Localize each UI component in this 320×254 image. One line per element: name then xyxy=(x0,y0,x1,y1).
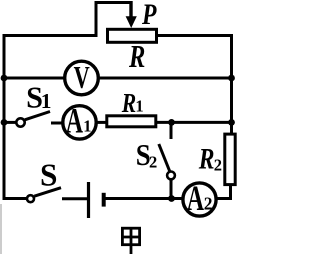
svg-text:2: 2 xyxy=(214,156,222,175)
voltmeter V letter xyxy=(74,60,90,95)
label jia character xyxy=(122,228,139,254)
wire R2 bottom stub xyxy=(229,185,232,200)
wire battery to A2 branch xyxy=(106,197,174,200)
wire switch to battery xyxy=(62,197,88,200)
slider arrow P shaft xyxy=(129,1,132,18)
scan artifact left edge xyxy=(0,204,2,254)
wire voltmeter row left xyxy=(3,77,65,80)
svg-text:R: R xyxy=(198,142,215,175)
svg-text:1: 1 xyxy=(41,89,52,113)
wire right vertical xyxy=(230,34,233,135)
ammeter A2 letter xyxy=(187,178,204,218)
node junction left V row xyxy=(1,75,8,82)
svg-text:P: P xyxy=(141,0,157,31)
label P xyxy=(141,0,157,31)
resistor R2 box xyxy=(225,134,235,185)
wire top left horizontal xyxy=(3,34,98,37)
node junction left A1 row xyxy=(1,119,8,126)
wire A2 to R2 bottom xyxy=(215,197,232,200)
node junction S2 branch top xyxy=(168,119,175,126)
svg-text:2: 2 xyxy=(149,153,157,172)
node junction A2 row xyxy=(168,195,175,202)
node junction right A1 row xyxy=(228,119,235,126)
svg-text:S: S xyxy=(40,158,57,193)
svg-text:2: 2 xyxy=(204,193,213,213)
ammeter A1 letter xyxy=(66,101,83,141)
switch S contact circle xyxy=(27,195,34,202)
wire stub before A1 xyxy=(51,122,63,125)
svg-text:R: R xyxy=(121,89,136,119)
label R1 xyxy=(121,89,136,119)
wire S2 circle to A2 row xyxy=(170,180,173,200)
wire riser to slider xyxy=(95,1,98,37)
wire top right horizontal xyxy=(158,34,233,37)
node junction right V row xyxy=(228,75,235,82)
svg-text:R: R xyxy=(128,40,145,75)
voltmeter U V circle xyxy=(65,61,99,95)
svg-text:V: V xyxy=(74,60,90,95)
wire left vertical xyxy=(3,34,6,200)
ammeter A1 circle xyxy=(63,106,96,139)
switch S2 contact circle xyxy=(167,172,175,180)
ammeter A2 circle xyxy=(183,183,216,216)
label R2 xyxy=(198,142,215,175)
wire to A2 xyxy=(170,197,183,200)
resistor R1 box xyxy=(107,116,156,127)
battery short plate xyxy=(102,193,106,207)
svg-text:1: 1 xyxy=(135,96,143,115)
rheostat R box xyxy=(108,29,157,42)
switch S blade xyxy=(34,188,61,197)
wire R1 to right xyxy=(156,121,233,124)
label R xyxy=(128,40,145,75)
wire bottom row left xyxy=(3,197,27,200)
wire stub A1 to R1 xyxy=(96,121,107,124)
wire slider top horizontal xyxy=(95,1,133,4)
svg-text:A: A xyxy=(66,101,83,141)
svg-text:A: A xyxy=(187,178,204,218)
battery long plate xyxy=(87,182,90,218)
switch S1 blade xyxy=(25,112,50,120)
switch S2 blade xyxy=(159,144,170,172)
wire voltmeter row right xyxy=(99,77,233,80)
label S2 xyxy=(136,139,151,173)
svg-text:1: 1 xyxy=(83,117,91,136)
slider arrow head xyxy=(126,16,137,28)
wire A1 row stub to switch xyxy=(3,121,17,124)
switch S1 contact circle xyxy=(16,118,24,126)
wire S2 stub down xyxy=(170,122,173,139)
